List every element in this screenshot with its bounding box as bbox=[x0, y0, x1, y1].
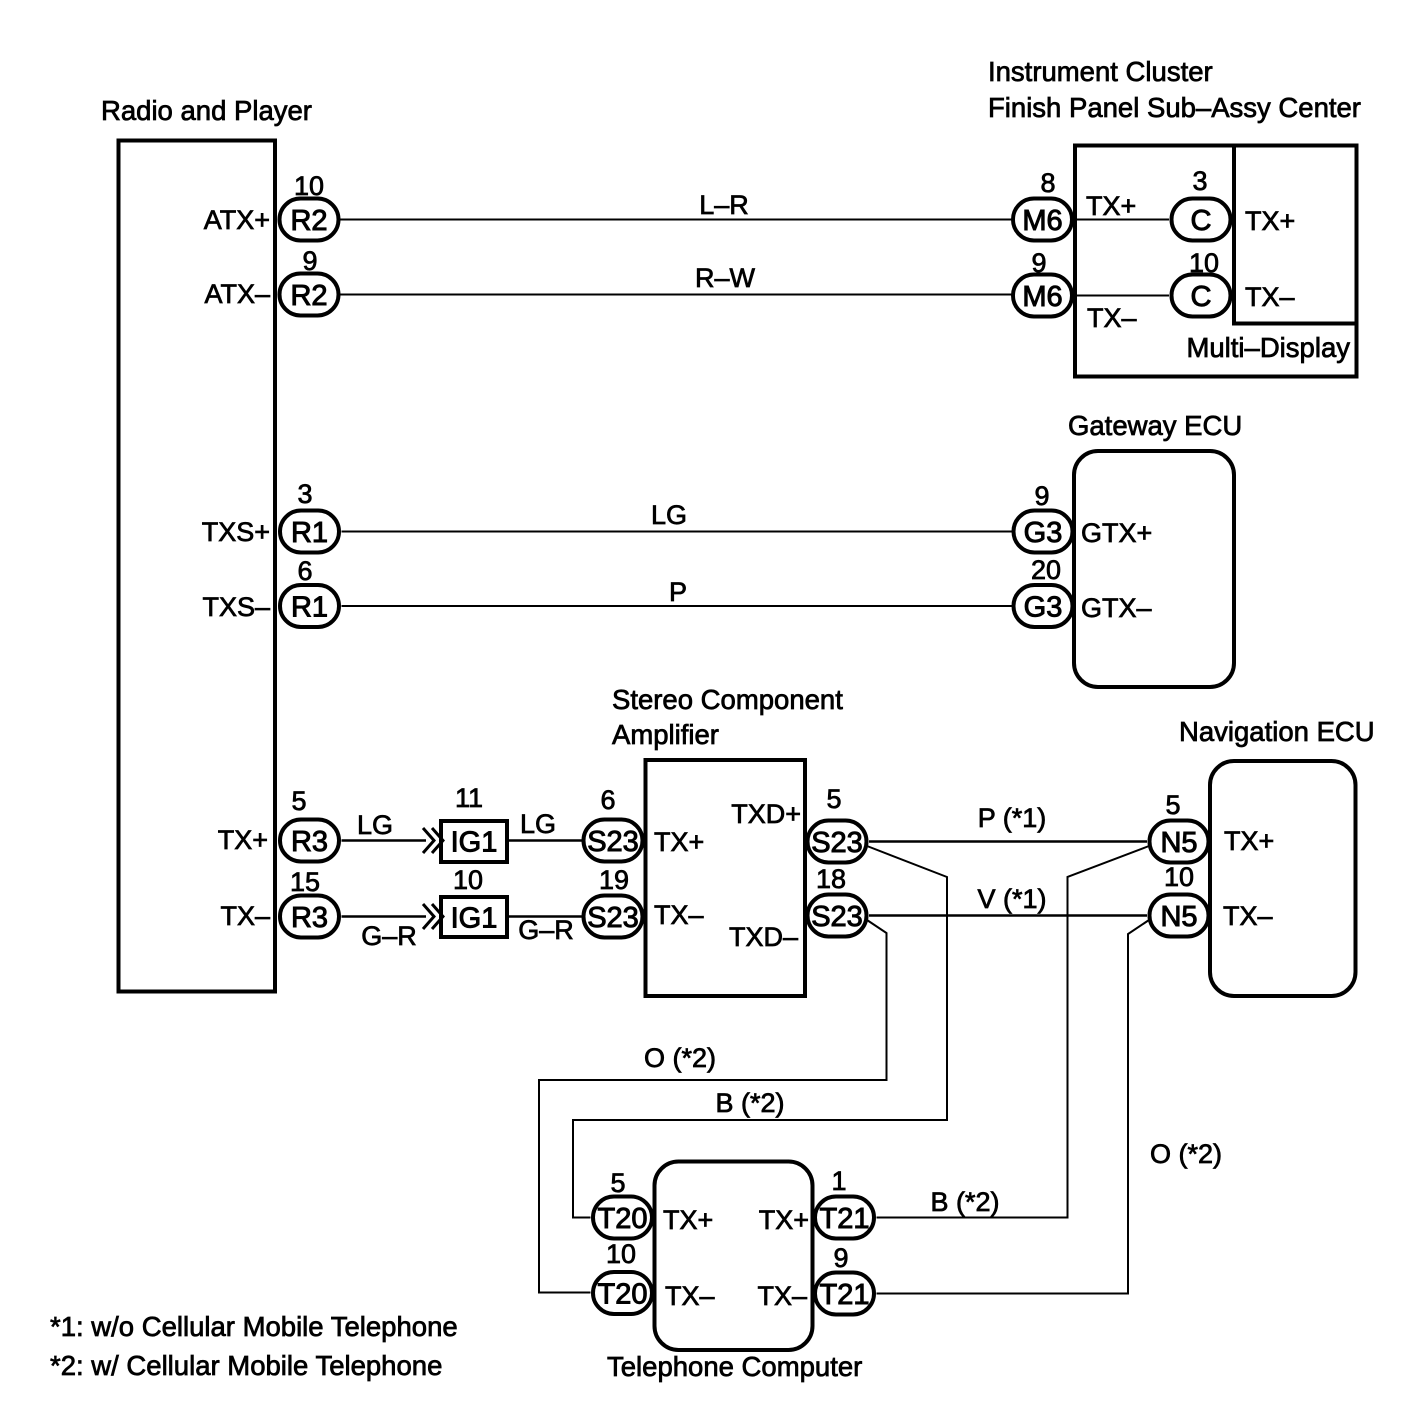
svg-text:M6: M6 bbox=[1022, 281, 1062, 313]
svg-text:V (*1): V (*1) bbox=[977, 884, 1046, 914]
connector block IG1 lower bbox=[441, 897, 507, 937]
svg-text:Instrument Cluster: Instrument Cluster bbox=[988, 56, 1213, 87]
svg-text:5: 5 bbox=[826, 784, 841, 814]
connector R2 pin 9 bbox=[280, 274, 339, 316]
svg-text:9: 9 bbox=[1031, 248, 1046, 278]
wire G-R (R3 pin15 to IG1 pin10) bbox=[342, 915, 427, 918]
svg-text:C: C bbox=[1191, 281, 1212, 313]
svg-text:10: 10 bbox=[606, 1239, 636, 1269]
box Multi-Display (inner) bbox=[1234, 146, 1357, 324]
svg-text:10: 10 bbox=[453, 865, 483, 895]
svg-text:18: 18 bbox=[816, 864, 846, 894]
svg-text:B (*2): B (*2) bbox=[930, 1187, 999, 1217]
svg-text:10: 10 bbox=[1189, 248, 1219, 278]
svg-text:TX–: TX– bbox=[665, 1281, 715, 1311]
svg-text:TX–: TX– bbox=[1087, 303, 1137, 333]
connector C pin 10 bbox=[1172, 275, 1231, 317]
svg-text:LG: LG bbox=[357, 810, 393, 840]
svg-text:3: 3 bbox=[1192, 166, 1207, 196]
wire V (*1) (S23 pin18 to N5 pin10) bbox=[869, 914, 1147, 917]
box Instrument Cluster Finish Panel Sub-Assy Center bbox=[1075, 146, 1357, 377]
svg-text:P (*1): P (*1) bbox=[978, 803, 1047, 833]
svg-text:O (*2): O (*2) bbox=[1150, 1139, 1222, 1169]
wire TX- (M6 to C pin10) bbox=[1073, 295, 1169, 297]
svg-text:TXS–: TXS– bbox=[202, 592, 270, 622]
wire O (*2) (S23 pin18 to T20 pin10) bbox=[539, 920, 887, 1293]
svg-text:Gateway ECU: Gateway ECU bbox=[1068, 410, 1242, 441]
svg-text:3: 3 bbox=[297, 479, 312, 509]
svg-text:IG1: IG1 bbox=[451, 827, 498, 859]
connector S23 pin 5 bbox=[808, 821, 867, 863]
wire O (*2) (N5 pin10 to T21 pin9) bbox=[877, 920, 1150, 1294]
connector T21 pin 1 bbox=[815, 1197, 874, 1239]
svg-text:TXD–: TXD– bbox=[729, 922, 798, 952]
connector R1 pin 6 bbox=[280, 585, 339, 627]
box Navigation ECU bbox=[1210, 761, 1356, 996]
wire B (*2) (N5 pin5 to T21 pin1) bbox=[877, 846, 1150, 1218]
wire P (*1) (S23 pin5 to N5 pin5) bbox=[869, 840, 1147, 843]
svg-text:Multi–Display: Multi–Display bbox=[1186, 332, 1350, 363]
connector R3 pin 15 bbox=[280, 896, 339, 938]
svg-text:*1: w/o Cellular Mobile Teleph: *1: w/o Cellular Mobile Telephone bbox=[50, 1311, 458, 1342]
svg-text:TXS+: TXS+ bbox=[202, 517, 270, 547]
svg-text:S23: S23 bbox=[587, 902, 639, 934]
wire LG (R1 pin3 to G3 pin9) bbox=[342, 531, 1013, 533]
svg-text:6: 6 bbox=[600, 785, 615, 815]
svg-text:O (*2): O (*2) bbox=[644, 1043, 716, 1073]
svg-text:10: 10 bbox=[294, 171, 324, 201]
svg-text:B (*2): B (*2) bbox=[715, 1088, 784, 1118]
svg-text:R3: R3 bbox=[291, 902, 328, 934]
svg-text:G–R: G–R bbox=[361, 921, 417, 951]
connector N5 pin 5 bbox=[1150, 821, 1209, 863]
connector N5 pin 10 bbox=[1150, 895, 1209, 937]
svg-text:TX+: TX+ bbox=[218, 825, 268, 855]
svg-text:9: 9 bbox=[302, 246, 317, 276]
svg-text:5: 5 bbox=[291, 786, 306, 816]
svg-text:GTX+: GTX+ bbox=[1081, 518, 1152, 548]
svg-text:TXD+: TXD+ bbox=[731, 799, 801, 829]
svg-text:*2: w/ Cellular Mobile Telepho: *2: w/ Cellular Mobile Telephone bbox=[50, 1350, 442, 1381]
svg-text:19: 19 bbox=[599, 865, 629, 895]
svg-text:G–R: G–R bbox=[518, 915, 574, 945]
svg-text:LG: LG bbox=[651, 500, 687, 530]
svg-text:R1: R1 bbox=[291, 517, 328, 549]
svg-text:TX–: TX– bbox=[654, 900, 704, 930]
svg-text:TX+: TX+ bbox=[1224, 826, 1274, 856]
svg-text:Navigation ECU: Navigation ECU bbox=[1179, 716, 1375, 747]
svg-text:15: 15 bbox=[290, 867, 320, 897]
connector M6 pin 8 bbox=[1013, 199, 1072, 241]
svg-text:20: 20 bbox=[1031, 555, 1061, 585]
svg-text:IG1: IG1 bbox=[451, 903, 498, 935]
connector G3 pin 20 bbox=[1014, 585, 1073, 627]
connector S23 pin 18 bbox=[808, 895, 867, 937]
svg-text:TX–: TX– bbox=[220, 901, 270, 931]
connector T21 pin 9 bbox=[815, 1273, 874, 1315]
box Radio and Player bbox=[119, 141, 276, 992]
svg-text:6: 6 bbox=[297, 556, 312, 586]
svg-text:S23: S23 bbox=[811, 901, 863, 933]
svg-text:P: P bbox=[669, 577, 687, 607]
svg-text:Telephone Computer: Telephone Computer bbox=[607, 1351, 862, 1382]
svg-text:TX–: TX– bbox=[1245, 282, 1295, 312]
connector T20 pin 10 bbox=[593, 1272, 652, 1314]
svg-text:GTX–: GTX– bbox=[1081, 593, 1152, 623]
connector R1 pin 3 bbox=[280, 511, 339, 553]
svg-text:TX+: TX+ bbox=[663, 1205, 713, 1235]
connector block IG1 upper bbox=[441, 821, 507, 862]
svg-text:1: 1 bbox=[831, 1166, 846, 1196]
svg-text:N5: N5 bbox=[1160, 827, 1197, 859]
svg-text:11: 11 bbox=[455, 783, 483, 813]
svg-text:R3: R3 bbox=[291, 826, 328, 858]
svg-text:G3: G3 bbox=[1024, 592, 1063, 624]
wire P (R1 pin6 to G3 pin20) bbox=[342, 605, 1013, 607]
svg-text:TX+: TX+ bbox=[1245, 206, 1295, 236]
svg-text:C: C bbox=[1191, 205, 1212, 237]
box Gateway ECU bbox=[1074, 451, 1234, 687]
box Telephone Computer bbox=[655, 1162, 813, 1351]
svg-text:M6: M6 bbox=[1022, 205, 1062, 237]
svg-text:ATX–: ATX– bbox=[204, 279, 270, 309]
wire LG (R3 pin5 to IG1 pin11) bbox=[342, 839, 427, 842]
svg-text:5: 5 bbox=[1165, 790, 1180, 820]
svg-text:TX+: TX+ bbox=[759, 1205, 809, 1235]
svg-text:Amplifier: Amplifier bbox=[612, 719, 719, 750]
wire L-R (R2 pin10 to M6 pin8) bbox=[340, 219, 1012, 221]
svg-text:R–W: R–W bbox=[695, 263, 756, 293]
svg-text:Stereo Component: Stereo Component bbox=[612, 684, 843, 715]
svg-text:N5: N5 bbox=[1160, 901, 1197, 933]
svg-text:9: 9 bbox=[833, 1243, 848, 1273]
box Stereo Component Amplifier bbox=[646, 760, 806, 996]
connector R2 pin 10 bbox=[280, 199, 339, 241]
svg-text:9: 9 bbox=[1034, 481, 1049, 511]
svg-text:S23: S23 bbox=[587, 826, 639, 858]
svg-text:TX+: TX+ bbox=[1086, 191, 1136, 221]
junction arrow IG1 upper bbox=[423, 828, 434, 853]
connector T20 pin 5 bbox=[593, 1197, 652, 1239]
wire R-W (R2 pin9 to M6 pin9) bbox=[340, 294, 1012, 296]
svg-text:Radio and Player: Radio and Player bbox=[101, 95, 312, 126]
wire G-R (IG1 to S23 pin19) bbox=[507, 915, 582, 918]
svg-text:TX–: TX– bbox=[1223, 901, 1273, 931]
svg-text:R1: R1 bbox=[291, 592, 328, 624]
connector M6 pin 9 bbox=[1013, 275, 1072, 317]
svg-text:R2: R2 bbox=[290, 280, 327, 312]
connector C pin 3 bbox=[1172, 199, 1231, 241]
svg-text:S23: S23 bbox=[811, 827, 863, 859]
svg-text:LG: LG bbox=[520, 809, 556, 839]
svg-text:10: 10 bbox=[1164, 862, 1194, 892]
wire TX+ (M6 to C pin3) bbox=[1073, 219, 1169, 221]
wire LG (IG1 to S23 pin6) bbox=[507, 839, 582, 842]
svg-text:TX–: TX– bbox=[757, 1281, 807, 1311]
svg-text:G3: G3 bbox=[1024, 517, 1063, 549]
svg-text:T21: T21 bbox=[820, 1279, 870, 1311]
svg-text:Finish Panel Sub–Assy Center: Finish Panel Sub–Assy Center bbox=[988, 92, 1361, 123]
connector S23 pin 19 bbox=[584, 896, 643, 938]
connector R3 pin 5 bbox=[280, 820, 339, 862]
svg-text:L–R: L–R bbox=[699, 190, 749, 220]
svg-text:T21: T21 bbox=[820, 1203, 870, 1235]
svg-text:R2: R2 bbox=[290, 205, 327, 237]
wire B (*2) (S23 pin5 to T20 pin5) bbox=[573, 846, 947, 1218]
svg-text:5: 5 bbox=[610, 1168, 625, 1198]
junction arrow IG1 lower bbox=[423, 904, 434, 929]
svg-text:T20: T20 bbox=[598, 1279, 648, 1311]
connector G3 pin 9 bbox=[1014, 511, 1073, 553]
svg-text:T20: T20 bbox=[598, 1203, 648, 1235]
connector S23 pin 6 bbox=[584, 820, 643, 862]
svg-text:ATX+: ATX+ bbox=[204, 205, 270, 235]
svg-text:8: 8 bbox=[1040, 168, 1055, 198]
svg-text:TX+: TX+ bbox=[654, 827, 704, 857]
